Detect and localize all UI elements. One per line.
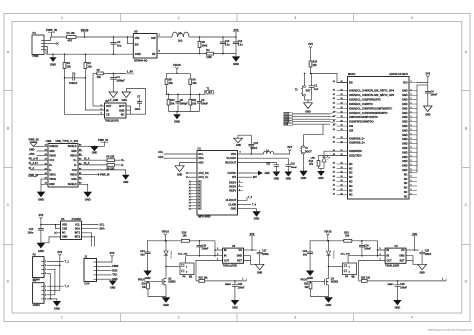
svg-text:A1: A1 (45, 172, 47, 175)
MPU CLKIN wire (238, 204, 252, 206)
svg-text:C17: C17 (262, 251, 267, 253)
regulator ADJ wire U3a (196, 261, 223, 281)
svg-text:10k: 10k (192, 81, 197, 85)
svg-text:12: 12 (341, 185, 343, 187)
svg-text:3V3: 3V3 (425, 71, 430, 75)
wire P2 pin1 net label (47, 260, 64, 262)
svg-text:A1: A1 (45, 158, 47, 161)
svg-text:VO: VO (239, 249, 243, 252)
svg-text:NC: NC (349, 194, 353, 197)
VBUS rail wire (51, 36, 134, 38)
svg-text:1: 1 (411, 176, 412, 178)
svg-text:GND: GND (174, 119, 180, 123)
capacitor C4m module (425, 92, 431, 94)
svg-text:12: 12 (341, 89, 343, 91)
svg-text:A1: A1 (333, 184, 335, 187)
svg-text:1: 1 (411, 155, 412, 157)
svg-text:GND: GND (402, 129, 408, 132)
wire P3 pin3 (47, 294, 55, 296)
capacitor C11 supply (275, 162, 277, 164)
svg-text:12: 12 (341, 171, 343, 173)
svg-text:12: 12 (341, 116, 343, 118)
svg-text:D-: D- (49, 169, 52, 172)
svg-text:A1: A1 (45, 177, 47, 180)
zener diode D2 (165, 241, 167, 251)
svg-text:T_2: T_2 (65, 285, 70, 288)
svg-text:IN: IN (224, 249, 227, 252)
svg-text:1000pF: 1000pF (116, 80, 125, 83)
sensor INT2 wire (82, 237, 95, 247)
svg-text:R5: R5 (169, 77, 173, 81)
svg-text:IN: IN (387, 249, 390, 252)
svg-text:1: 1 (411, 111, 412, 113)
svg-text:CA4: CA4 (84, 281, 90, 285)
svg-text:PWR: PWR (33, 54, 39, 58)
svg-text:VO: VO (401, 249, 405, 252)
svg-text:GND: GND (135, 52, 141, 56)
capacitor C3 (113, 37, 115, 43)
svg-text:GND: GND (119, 109, 125, 113)
svg-text:NC: NC (198, 200, 202, 202)
wire P3 pin1 net label (47, 285, 64, 287)
svg-text:CON4: CON4 (33, 303, 41, 307)
svg-text:12: 12 (341, 189, 343, 191)
svg-text:1_8V: 1_8V (127, 69, 133, 73)
svg-text:12: 12 (341, 193, 343, 195)
svg-text:R1 10k: R1 10k (67, 31, 76, 35)
ground C21 (306, 271, 314, 276)
svg-text:NC: NC (349, 176, 353, 179)
svg-text:NC: NC (404, 182, 408, 185)
USB type-C connector USB1 (48, 144, 78, 188)
svg-text:VBUS: VBUS (49, 178, 56, 181)
svg-text:U4: U4 (61, 217, 65, 221)
svg-text:SMBJ5.0A: SMBJ5.0A (170, 251, 173, 260)
wire P2 pin4 down (47, 273, 50, 299)
svg-text:GND: GND (92, 152, 98, 155)
svg-text:R3: R3 (202, 40, 206, 44)
resistor R25 adj (359, 280, 362, 282)
svg-text:1: 1 (411, 160, 412, 162)
buck regulator U5 (133, 34, 157, 59)
svg-text:GND: GND (145, 276, 151, 280)
ground boot (299, 171, 307, 176)
regulator GND pins U6 (406, 256, 413, 261)
LDO right side pins and cap C7 (126, 106, 131, 114)
svg-text:NC: NC (404, 195, 408, 198)
capacitor C10 on VDD (250, 146, 252, 154)
svg-text:CC1: CC1 (49, 159, 54, 162)
wire sensor CSB (56, 225, 61, 229)
svg-text:1V8: 1V8 (412, 232, 417, 236)
svg-text:SMBJ: SMBJ (387, 284, 394, 286)
svg-text:AD0: AD0 (198, 160, 204, 164)
svg-text:IO6/ADC1_CH6/FSPICLK/MTMS/RTC: IO6/ADC1_CH6/FSPICLK/MTMS/RTC (349, 107, 392, 110)
EN ground rail (305, 99, 312, 101)
resistor R1 on VBUS rail (67, 36, 77, 39)
svg-text:GND: GND (236, 145, 241, 147)
svg-text:INT: INT (253, 176, 257, 179)
svg-text:RESV: RESV (229, 189, 236, 193)
svg-text:GND: GND (54, 307, 60, 311)
sensor SDA wire (82, 228, 99, 230)
svg-text:10k: 10k (97, 75, 102, 79)
svg-text:LF_GND: LF_GND (109, 99, 119, 102)
MPU GND pin to ground (238, 209, 257, 212)
ground arrow under C4 (109, 92, 118, 98)
capacitor C20 adj (234, 280, 236, 282)
wire P2 pin2 3V3 (47, 264, 60, 266)
svg-text:GND: GND (402, 165, 408, 168)
svg-text:B1: B1 (79, 159, 81, 161)
svg-text:1: 1 (411, 151, 412, 153)
svg-text:NC: NC (349, 172, 353, 175)
svg-text:C16: C16 (202, 245, 207, 247)
svg-text:SW: SW (151, 36, 156, 40)
svg-text:BS: BS (135, 42, 139, 46)
svg-text:IN: IN (224, 255, 227, 258)
svg-text:1: 1 (411, 142, 412, 144)
inductor L1 (172, 32, 189, 37)
svg-text:IO5/ADC1_CH5/XTAL32K_N/RTC_GP5: IO5/ADC1_CH5/XTAL32K_N/RTC_GP5 (349, 94, 395, 97)
wire LDO OUT to R7 (93, 105, 105, 107)
wire P3 pin4 to ground (47, 299, 57, 301)
ground C26 (393, 300, 401, 305)
svg-text:GND: GND (402, 112, 408, 115)
ground arrow usb left top (30, 143, 37, 147)
wire ferrite to 3V3 flag (274, 153, 290, 155)
svg-text:REGOUT: REGOUT (225, 160, 236, 164)
svg-text:R9 22R: R9 22R (107, 157, 115, 159)
svg-text:3: 3 (294, 316, 296, 320)
wire jumper to regulator IN U6 (347, 256, 349, 263)
svg-text:A1: A1 (45, 162, 47, 165)
svg-text:USB_TYPE_C_2X4: USB_TYPE_C_2X4 (56, 139, 79, 143)
svg-text:GND: GND (402, 125, 408, 128)
svg-text:GND: GND (307, 276, 313, 280)
GND bus wire right (416, 85, 418, 172)
svg-text:CLKOUT: CLKOUT (226, 198, 237, 202)
svg-text:3V3: 3V3 (308, 42, 313, 46)
MPU RESV stubs (238, 181, 244, 183)
resistor R10 network (168, 94, 170, 99)
svg-text:1: 1 (411, 147, 412, 149)
regulator GND pins U3a (244, 256, 251, 261)
svg-text:3.3u: 3.3u (225, 44, 230, 47)
svg-text:NC: NC (349, 167, 353, 170)
svg-text:A1: A1 (333, 97, 335, 100)
svg-text:C4: C4 (116, 75, 120, 79)
svg-text:C11: C11 (266, 164, 271, 166)
svg-text:GND: GND (265, 173, 270, 175)
svg-text:VLOGIC: VLOGIC (226, 156, 236, 160)
svg-text:100nF: 100nF (431, 95, 438, 97)
svg-text:GND: GND (286, 178, 292, 181)
ground sensor (37, 243, 46, 249)
wire jumper to regulator IN U3a (185, 256, 187, 263)
svg-text:3V3: 3V3 (250, 232, 255, 236)
wire boot button to ground (303, 154, 305, 171)
svg-text:12: 12 (341, 176, 343, 178)
svg-text:GND: GND (38, 249, 44, 253)
svg-text:1: 1 (239, 189, 240, 191)
svg-text:GND: GND (399, 255, 405, 258)
svg-text:SHIELD: SHIELD (68, 145, 77, 148)
svg-text:SHIELD: SHIELD (49, 145, 58, 148)
module MOD1 ESP32 (348, 77, 410, 200)
svg-text:1: 1 (411, 185, 412, 187)
svg-text:NC: NC (198, 184, 202, 186)
svg-text:FSYNC: FSYNC (228, 171, 237, 175)
svg-text:LED: LED (311, 157, 316, 159)
connector P3 (33, 283, 44, 304)
svg-text:GND: GND (402, 169, 408, 172)
capacitor C21 input (309, 241, 311, 252)
wire R7 to net label (103, 72, 126, 74)
svg-text:A1: A1 (333, 128, 335, 131)
svg-text:FB: FB (152, 52, 156, 56)
capacitor C14 sensor (40, 225, 42, 229)
svg-text:1: 1 (411, 89, 412, 91)
ground Q2 source (165, 296, 167, 299)
feedback resistor R3 (199, 37, 201, 42)
svg-text:1000pF: 1000pF (180, 103, 189, 105)
ground arrow usb right top (94, 146, 96, 148)
svg-text:NC: NC (198, 209, 202, 211)
resistor R11 network (189, 94, 191, 99)
wire P1 pin1 to VBUS rail (44, 37, 51, 41)
sensor INT1 wire (82, 233, 92, 247)
svg-text:IO19/USB_D+: IO19/USB_D+ (349, 142, 366, 145)
svg-text:R4: R4 (67, 61, 71, 65)
svg-text:115k: 115k (206, 55, 212, 59)
usb right shield to ground (83, 184, 88, 191)
capacitor C9 network (199, 94, 201, 101)
resistor R23 inline (344, 239, 352, 242)
module right pin stubs and GND bus (409, 82, 417, 84)
ferrite bead L2 (264, 151, 274, 154)
svg-text:A1: A1 (333, 166, 335, 169)
resistor R7 (93, 72, 97, 74)
svg-text:PWR_IN: PWR_IN (29, 137, 39, 141)
usb CC2 to ground (83, 170, 126, 175)
svg-text:1000nF: 1000nF (69, 82, 78, 85)
regulator U6 (385, 248, 406, 263)
svg-text:SCL: SCL (75, 223, 80, 226)
svg-text:C25: C25 (425, 251, 430, 253)
svg-text:GND: GND (402, 156, 408, 159)
svg-text:NC: NC (349, 181, 353, 184)
svg-text:C12: C12 (291, 164, 296, 166)
svg-text:NC: NC (62, 232, 66, 235)
svg-text:GND: GND (49, 183, 55, 186)
svg-text:MOD1: MOD1 (348, 72, 356, 76)
svg-text:SBU1: SBU1 (49, 173, 56, 176)
svg-text:12: 12 (341, 167, 343, 169)
svg-text:10u: 10u (117, 44, 122, 48)
svg-text:GND: GND (163, 303, 169, 307)
svg-text:NC: NC (121, 113, 125, 117)
svg-text:ACL_10k: ACL_10k (178, 252, 188, 255)
svg-text:10k: 10k (183, 235, 188, 238)
ground MPU (252, 211, 260, 216)
wire 3V3 to sensor VDD (41, 224, 61, 226)
capacitor C1 EN (311, 73, 313, 85)
svg-text:NC: NC (198, 187, 202, 189)
svg-text:NC: NC (349, 189, 353, 192)
svg-text:A1: A1 (333, 80, 335, 83)
svg-text:1: 1 (411, 189, 412, 191)
svg-text:B1: B1 (79, 173, 81, 175)
svg-text:SHIELD: SHIELD (68, 183, 77, 186)
svg-text:RESV: RESV (229, 185, 236, 189)
resistor R4 feedback (207, 52, 214, 55)
svg-text:GND: GND (301, 176, 307, 180)
LED D1 (322, 157, 326, 162)
svg-text:4R7: 4R7 (68, 39, 73, 43)
svg-text:12: 12 (341, 129, 343, 131)
resistor R5 (166, 73, 168, 79)
svg-text:C20: C20 (238, 284, 243, 286)
capacitor C14 input (147, 241, 149, 252)
MPU VDD wire with supply (238, 153, 264, 155)
svg-text:GND: GND (402, 90, 408, 93)
svg-text:NC: NC (349, 163, 353, 166)
svg-text:4: 4 (411, 16, 413, 20)
wire drain to jumper U6 (329, 266, 343, 268)
VBUS rail U6 (310, 240, 344, 242)
svg-text:OUT: OUT (224, 260, 230, 263)
svg-text:A1: A1 (45, 144, 47, 147)
svg-text:R6: R6 (192, 77, 196, 81)
svg-text:3V3: 3V3 (110, 251, 115, 255)
svg-text:3V3: 3V3 (403, 81, 408, 85)
svg-text:10k: 10k (170, 102, 175, 105)
svg-text:NC: NC (198, 206, 202, 208)
svg-text:SI2302: SI2302 (168, 282, 176, 284)
svg-text:TXD: TXD (112, 274, 117, 277)
svg-text:GND: GND (233, 62, 239, 66)
svg-text:R2: R2 (88, 61, 92, 65)
svg-text:A1: A1 (333, 179, 335, 182)
MPU INT wire (238, 176, 253, 178)
J1 signal wires (97, 265, 112, 267)
svg-text:1: 1 (411, 98, 412, 100)
svg-text:GND: GND (395, 306, 401, 310)
svg-text:R14: R14 (309, 160, 314, 163)
svg-text:SDA: SDA (75, 228, 80, 231)
svg-text:1: 1 (411, 94, 412, 96)
svg-text:VDD: VDD (231, 152, 237, 156)
svg-text:1: 1 (411, 81, 412, 83)
svg-text:A1: A1 (333, 188, 335, 191)
svg-text:100n: 100n (28, 232, 34, 235)
svg-text:GND: GND (402, 103, 408, 106)
MOSFET Q2 (162, 278, 166, 285)
USB left pin stubs (44, 145, 49, 147)
ground J1 (112, 279, 114, 280)
svg-text:GND: GND (71, 178, 77, 181)
svg-text:IO2/ADC1_CH2/FSPIQ/RTC: IO2/ADC1_CH2/FSPIQ/RTC (349, 99, 381, 102)
VBUS rail U3a (147, 240, 181, 242)
svg-text:GND: GND (232, 306, 238, 310)
wire P2 pin3 down (47, 269, 55, 295)
svg-text:P1: P1 (33, 31, 37, 35)
wire AUX_CL no-connect (188, 176, 197, 178)
svg-text:R4: R4 (206, 48, 210, 52)
svg-text:A1: A1 (45, 148, 47, 151)
svg-text:A1: A1 (333, 88, 335, 91)
svg-text:100nF: 100nF (291, 167, 298, 169)
svg-text:IN: IN (106, 109, 109, 113)
module left pin stubs (337, 82, 348, 84)
wire drain to jumper U3a (166, 266, 180, 268)
capacitor C25 output (421, 250, 423, 252)
svg-text:D+: D+ (121, 158, 125, 162)
svg-text:SMBJ5.0A: SMBJ5.0A (332, 251, 335, 260)
svg-text:1: 1 (61, 16, 63, 20)
svg-text:NC: NC (198, 193, 202, 195)
MPU VLOGIC wire to cap C12b (238, 157, 289, 159)
svg-text:GND: GND (29, 148, 35, 151)
wire P3 pin2 (47, 289, 60, 291)
svg-text:12: 12 (341, 125, 343, 127)
svg-text:AUX_CL: AUX_CL (198, 175, 209, 179)
svg-text:VBUS: VBUS (49, 155, 56, 158)
svg-text:GND: GND (402, 94, 408, 97)
svg-text:SDA: SDA (158, 156, 163, 159)
svg-text:1: 1 (411, 180, 412, 182)
capacitor C12 output (235, 37, 237, 42)
wire R4b down to LDO (65, 69, 105, 115)
svg-text:12: 12 (341, 120, 343, 122)
svg-text:RESV: RESV (229, 180, 236, 184)
svg-text:GND: GND (50, 62, 56, 66)
svg-text:SMBJ: SMBJ (225, 284, 232, 286)
svg-text:SDA: SDA (198, 156, 204, 160)
sensor GND pin wire (41, 237, 61, 243)
wire U5 SW output (157, 36, 172, 38)
svg-text:IO4/ADC1_CH4/XTAL32K_P/RTC_GP4: IO4/ADC1_CH4/XTAL32K_P/RTC_GP4 (349, 90, 394, 93)
svg-text:INT1: INT1 (75, 232, 81, 235)
svg-text:BYP: BYP (119, 104, 125, 108)
svg-text:NC: NC (404, 173, 408, 176)
svg-text:1: 1 (411, 169, 412, 171)
connector P1 (32, 35, 44, 55)
svg-text:GND: GND (177, 173, 183, 176)
ground arrow EN (304, 103, 313, 109)
svg-text:1: 1 (239, 185, 240, 187)
wire boot button to IO9 (304, 124, 324, 145)
jumper P4 U6 (343, 263, 357, 275)
svg-text:GND: GND (38, 198, 44, 202)
svg-text:GND: GND (62, 236, 68, 239)
ground C12b (284, 172, 292, 177)
svg-text:3: 3 (294, 16, 296, 20)
svg-text:NC: NC (404, 191, 408, 194)
ground network (176, 112, 178, 115)
svg-text:3V3: 3V3 (233, 28, 238, 32)
svg-text:100nF: 100nF (400, 288, 407, 290)
svg-text:12: 12 (341, 98, 343, 100)
svg-text:A1: A1 (45, 167, 47, 170)
MPU REGOUT wire to cap C11 (238, 161, 277, 163)
svg-text:100nF: 100nF (201, 103, 208, 105)
resistor R4b divider (64, 54, 66, 62)
svg-text:1: 1 (411, 164, 412, 166)
wire IO to LED (324, 151, 348, 157)
sensor SCL wire (82, 224, 99, 226)
